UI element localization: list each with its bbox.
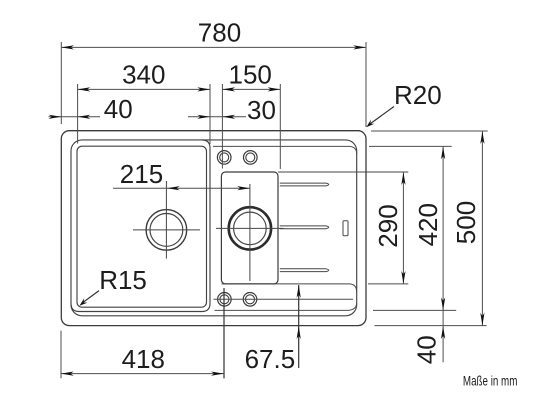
svg-text:290: 290 bbox=[373, 204, 403, 247]
left bowl drain circle outer bbox=[146, 210, 187, 251]
bottom tap hole left bbox=[218, 293, 232, 307]
R15 leader arrow bbox=[82, 291, 100, 304]
svg-text:R20: R20 bbox=[394, 80, 442, 110]
dimension 780 bbox=[60, 42, 62, 124]
svg-text:418: 418 bbox=[122, 344, 165, 374]
svg-text:67.5: 67.5 bbox=[245, 344, 296, 374]
left drain crosshair vertical bbox=[165, 181, 167, 259]
left bowl drain circle inner bbox=[150, 214, 183, 247]
svg-text:Maße in mm: Maße in mm bbox=[463, 373, 518, 389]
overflow slot bbox=[343, 221, 348, 236]
drain groove 3 bbox=[280, 269, 329, 272]
dimension 420 bbox=[442, 147, 444, 363]
dimension 500 bbox=[481, 131, 483, 325]
svg-text:30: 30 bbox=[247, 95, 276, 125]
svg-text:500: 500 bbox=[451, 201, 481, 244]
svg-text:R15: R15 bbox=[99, 265, 147, 295]
dimension 40 bottom right bbox=[441, 326, 445, 339]
bowl top line extended right bbox=[278, 171, 408, 173]
svg-text:215: 215 bbox=[120, 159, 163, 189]
sink inner rim outline bbox=[71, 140, 357, 316]
middle drain crosshair horizontal bbox=[216, 227, 284, 229]
drainer step line bottom bbox=[215, 303, 357, 310]
dimension 40 top left bbox=[49, 116, 101, 118]
dimension 30 bbox=[188, 116, 246, 118]
svg-text:40: 40 bbox=[104, 94, 133, 124]
dimension 290 bbox=[402, 173, 404, 284]
svg-text:780: 780 bbox=[198, 18, 241, 48]
dimension 150 bbox=[221, 84, 223, 169]
dimension 215 bbox=[113, 187, 250, 189]
top tap hole right bbox=[244, 151, 258, 165]
left bowl outer bbox=[71, 140, 210, 312]
svg-text:420: 420 bbox=[413, 203, 443, 246]
sink outer outline bbox=[61, 131, 366, 326]
right ext line step top bbox=[369, 145, 452, 147]
dimension 340 bbox=[77, 84, 79, 144]
middle bowl drain circle outer bbox=[229, 207, 271, 249]
bottom tap hole right bbox=[243, 293, 257, 307]
left drain crosshair horizontal bbox=[133, 229, 200, 231]
top tap hole left bbox=[217, 151, 231, 165]
drain groove 2 bbox=[280, 226, 329, 229]
drainer step line top bbox=[213, 146, 357, 154]
right ext line outer top bbox=[371, 130, 488, 132]
right ext line outer bottom bbox=[375, 325, 487, 327]
line through bottom tap holes bbox=[214, 298, 354, 300]
middle bowl outline bbox=[221, 172, 278, 284]
dimension 67.5 bbox=[298, 285, 300, 368]
middle bowl drain circle inner bbox=[234, 212, 267, 245]
svg-text:150: 150 bbox=[229, 59, 272, 89]
svg-text:340: 340 bbox=[122, 59, 165, 89]
svg-text:40: 40 bbox=[412, 335, 442, 364]
left bowl inner bbox=[77, 146, 207, 307]
dimension 418 bbox=[60, 331, 62, 379]
middle drain crosshair vertical bbox=[249, 184, 251, 281]
drain groove 1 bbox=[280, 183, 329, 186]
R20 leader arrow bbox=[369, 107, 395, 126]
bowl bottom line extended right bbox=[222, 284, 357, 292]
